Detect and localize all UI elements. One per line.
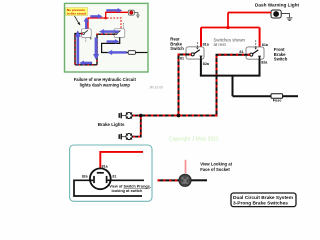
svg-text:81: 81 [180, 57, 184, 61]
node: bulb junction [139, 114, 143, 118]
svg-text:View Looking at: View Looking at [200, 161, 232, 166]
svg-text:81a: 81a [203, 42, 210, 46]
svg-text:81: 81 [112, 175, 116, 179]
svg-text:lights dash warning lamp: lights dash warning lamp [80, 83, 131, 88]
black wire: horizontal joining both 82a [200, 75, 261, 77]
inset wire: solid red junction up to lamp [106, 12, 129, 18]
svg-text:81: 81 [239, 50, 243, 54]
inset ground at lamp [134, 13, 139, 18]
rear brake switch SW1 [186, 42, 204, 59]
prong view box [70, 145, 152, 201]
yellow note "No pressure in this circuit" [66, 8, 88, 16]
red wire: lamp feed horizontal [228, 12, 271, 14]
black wire from left prong around bottom [74, 180, 142, 196]
striped wire bulb bottom up to junction [132, 116, 141, 137]
right prong blade [106, 176, 108, 183]
striped wire: brake light bus [141, 115, 218, 117]
inset striped wire: right switch feed down to bus [97, 34, 115, 65]
inset left brake switch (failed, at rest) [81, 29, 91, 42]
svg-text:Failure of one Hydraulic Circu: Failure of one Hydraulic Circuit [74, 77, 137, 82]
front brake switch label [274, 47, 288, 62]
inset box (failure illustration) [65, 3, 149, 72]
svg-text:82a: 82a [261, 61, 268, 65]
flow arrow right above lamp feed [107, 8, 122, 12]
socket face symbol [179, 174, 191, 186]
striped wire: rear switch common to brake light bus [179, 55, 192, 115]
brake light bulb top [119, 112, 132, 118]
black wire: drop to fuse row [232, 76, 234, 97]
inset wire: solid red from left switch top to junction [88, 18, 106, 29]
svg-text:Switch: Switch [170, 46, 184, 51]
red wire: drop to rear switch 81a [200, 28, 202, 49]
socket view circle [90, 168, 111, 189]
svg-text:Dual Circuit Brake System: Dual Circuit Brake System [233, 195, 293, 201]
red node junction [226, 26, 229, 29]
striped wire to socket [158, 179, 180, 181]
flow arrow left along fuse wire [108, 50, 127, 55]
inset wire: right switch bottom to fuse (Z shape) [102, 37, 129, 52]
black wire: to fuse [233, 95, 272, 97]
inset wire: dashed red to right switch top [107, 18, 121, 29]
svg-text:82a: 82a [82, 175, 89, 179]
svg-text:Face of Socket: Face of Socket [200, 167, 230, 172]
svg-text:81a: 81a [262, 43, 269, 47]
ground at dash lamp [281, 14, 292, 21]
black wire from right prong [107, 179, 144, 181]
black wire: front switch 82a down [259, 59, 261, 75]
dash warning lamp U1 [271, 10, 281, 18]
svg-text:Dash Warning Light: Dash Warning Light [255, 3, 300, 8]
left prong blade [93, 176, 95, 183]
rear brake switch label [170, 37, 184, 52]
switches shown at rest note [214, 38, 246, 47]
inset wire: fuse to border [135, 52, 147, 54]
svg-text:Brake Lights: Brake Lights [98, 122, 125, 127]
front brake switch SW2 [246, 40, 264, 59]
flow arrow up beside red wire [84, 17, 89, 28]
title box [231, 193, 296, 207]
svg-text:Copyright J Mais 2011: Copyright J Mais 2011 [169, 137, 219, 143]
inset node: red junction [104, 17, 107, 20]
svg-text:81a: 81a [102, 165, 109, 169]
svg-text:Switch: Switch [274, 57, 288, 62]
brake light bulb bottom [119, 134, 132, 140]
red wire: vertical to bus [227, 13, 229, 28]
socket view label [200, 161, 232, 171]
flow arrow left along bus [79, 61, 92, 65]
flow arrow up beside left striped drop [75, 31, 80, 65]
svg-text:82a: 82a [203, 62, 210, 66]
inset striped wire: bus [75, 64, 97, 66]
red wire: warning bus between switch tops [201, 27, 260, 29]
inset warning lamp (lit red) [128, 10, 134, 15]
svg-text:looking at switch: looking at switch [112, 189, 143, 193]
fuse F1 [271, 94, 283, 99]
striped wire: front switch common to brake light bus [217, 55, 250, 115]
inset right brake switch (pressed) [114, 23, 125, 37]
svg-text:Fuse: Fuse [273, 98, 282, 102]
striped wire bulb top to junction [132, 115, 141, 117]
svg-text:at rest: at rest [214, 42, 227, 47]
svg-text:JM 10 09: JM 10 09 [149, 86, 163, 90]
red wire: drop to front switch 81a [259, 28, 261, 49]
flow arrow left along striped feed of right switch [99, 29, 118, 34]
black wire: fuse to battery edge [283, 95, 298, 97]
leader arrow from note to left inset switch [75, 16, 81, 26]
flow arrow right along upper fuse segment [107, 39, 119, 43]
svg-text:3-Prong Brake Switches: 3-Prong Brake Switches [233, 201, 288, 207]
node: bus junction at rear drop [177, 114, 181, 118]
red wire from top prong [100, 152, 143, 173]
black wire: rear switch 82a down [200, 59, 202, 76]
flow arrow down beside right striped drop [93, 38, 99, 60]
black wire from socket right [191, 179, 207, 181]
flow arrow right along y16.4 [91, 14, 103, 18]
top prong blade [97, 172, 104, 174]
inset fuse [128, 51, 135, 55]
pink leader to socket [185, 160, 187, 173]
inset striped wire: left switch feed down to bus [75, 34, 82, 65]
svg-text:in this circuit: in this circuit [67, 11, 86, 15]
